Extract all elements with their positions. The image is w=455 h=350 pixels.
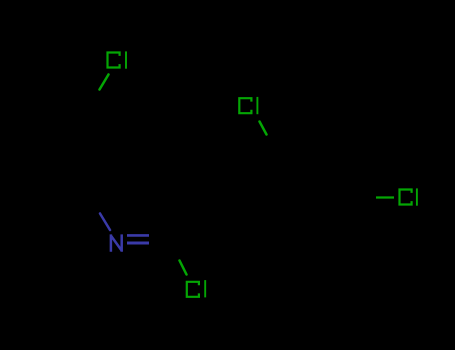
atom label Cl (chloromethyl chlorine, top-left): boxy C + l bar <box>108 51 127 68</box>
bond C4'-Cl (green half, horizontal toward right Cl label) <box>376 196 394 198</box>
atom label Cl (2'-chloro of phenyl ring, top): boxy C + l bar <box>239 97 257 114</box>
atom label N (pyridine nitrogen): two stems + diagonal <box>111 234 122 251</box>
bond C2'-Cl (green half, from top phenyl Cl down-right) <box>260 122 267 135</box>
double bond N=C2 main line (blue half) <box>127 242 149 245</box>
atom label Cl (4'-chloro of phenyl ring, right): boxy C + l bar <box>400 188 417 205</box>
double bond N=C2 inner line (blue half) <box>127 234 149 237</box>
bond C2-Cl (green half, toward bottom Cl label) <box>180 261 187 275</box>
atom label Cl (2-chloro of pyridine, bottom): boxy C + l bar <box>187 280 205 297</box>
bond CH2-Cl (green half, from Cl label toward CH2 carbon) <box>100 75 109 90</box>
bond C6-N (blue half, into ring nitrogen from upper left) <box>100 214 110 231</box>
